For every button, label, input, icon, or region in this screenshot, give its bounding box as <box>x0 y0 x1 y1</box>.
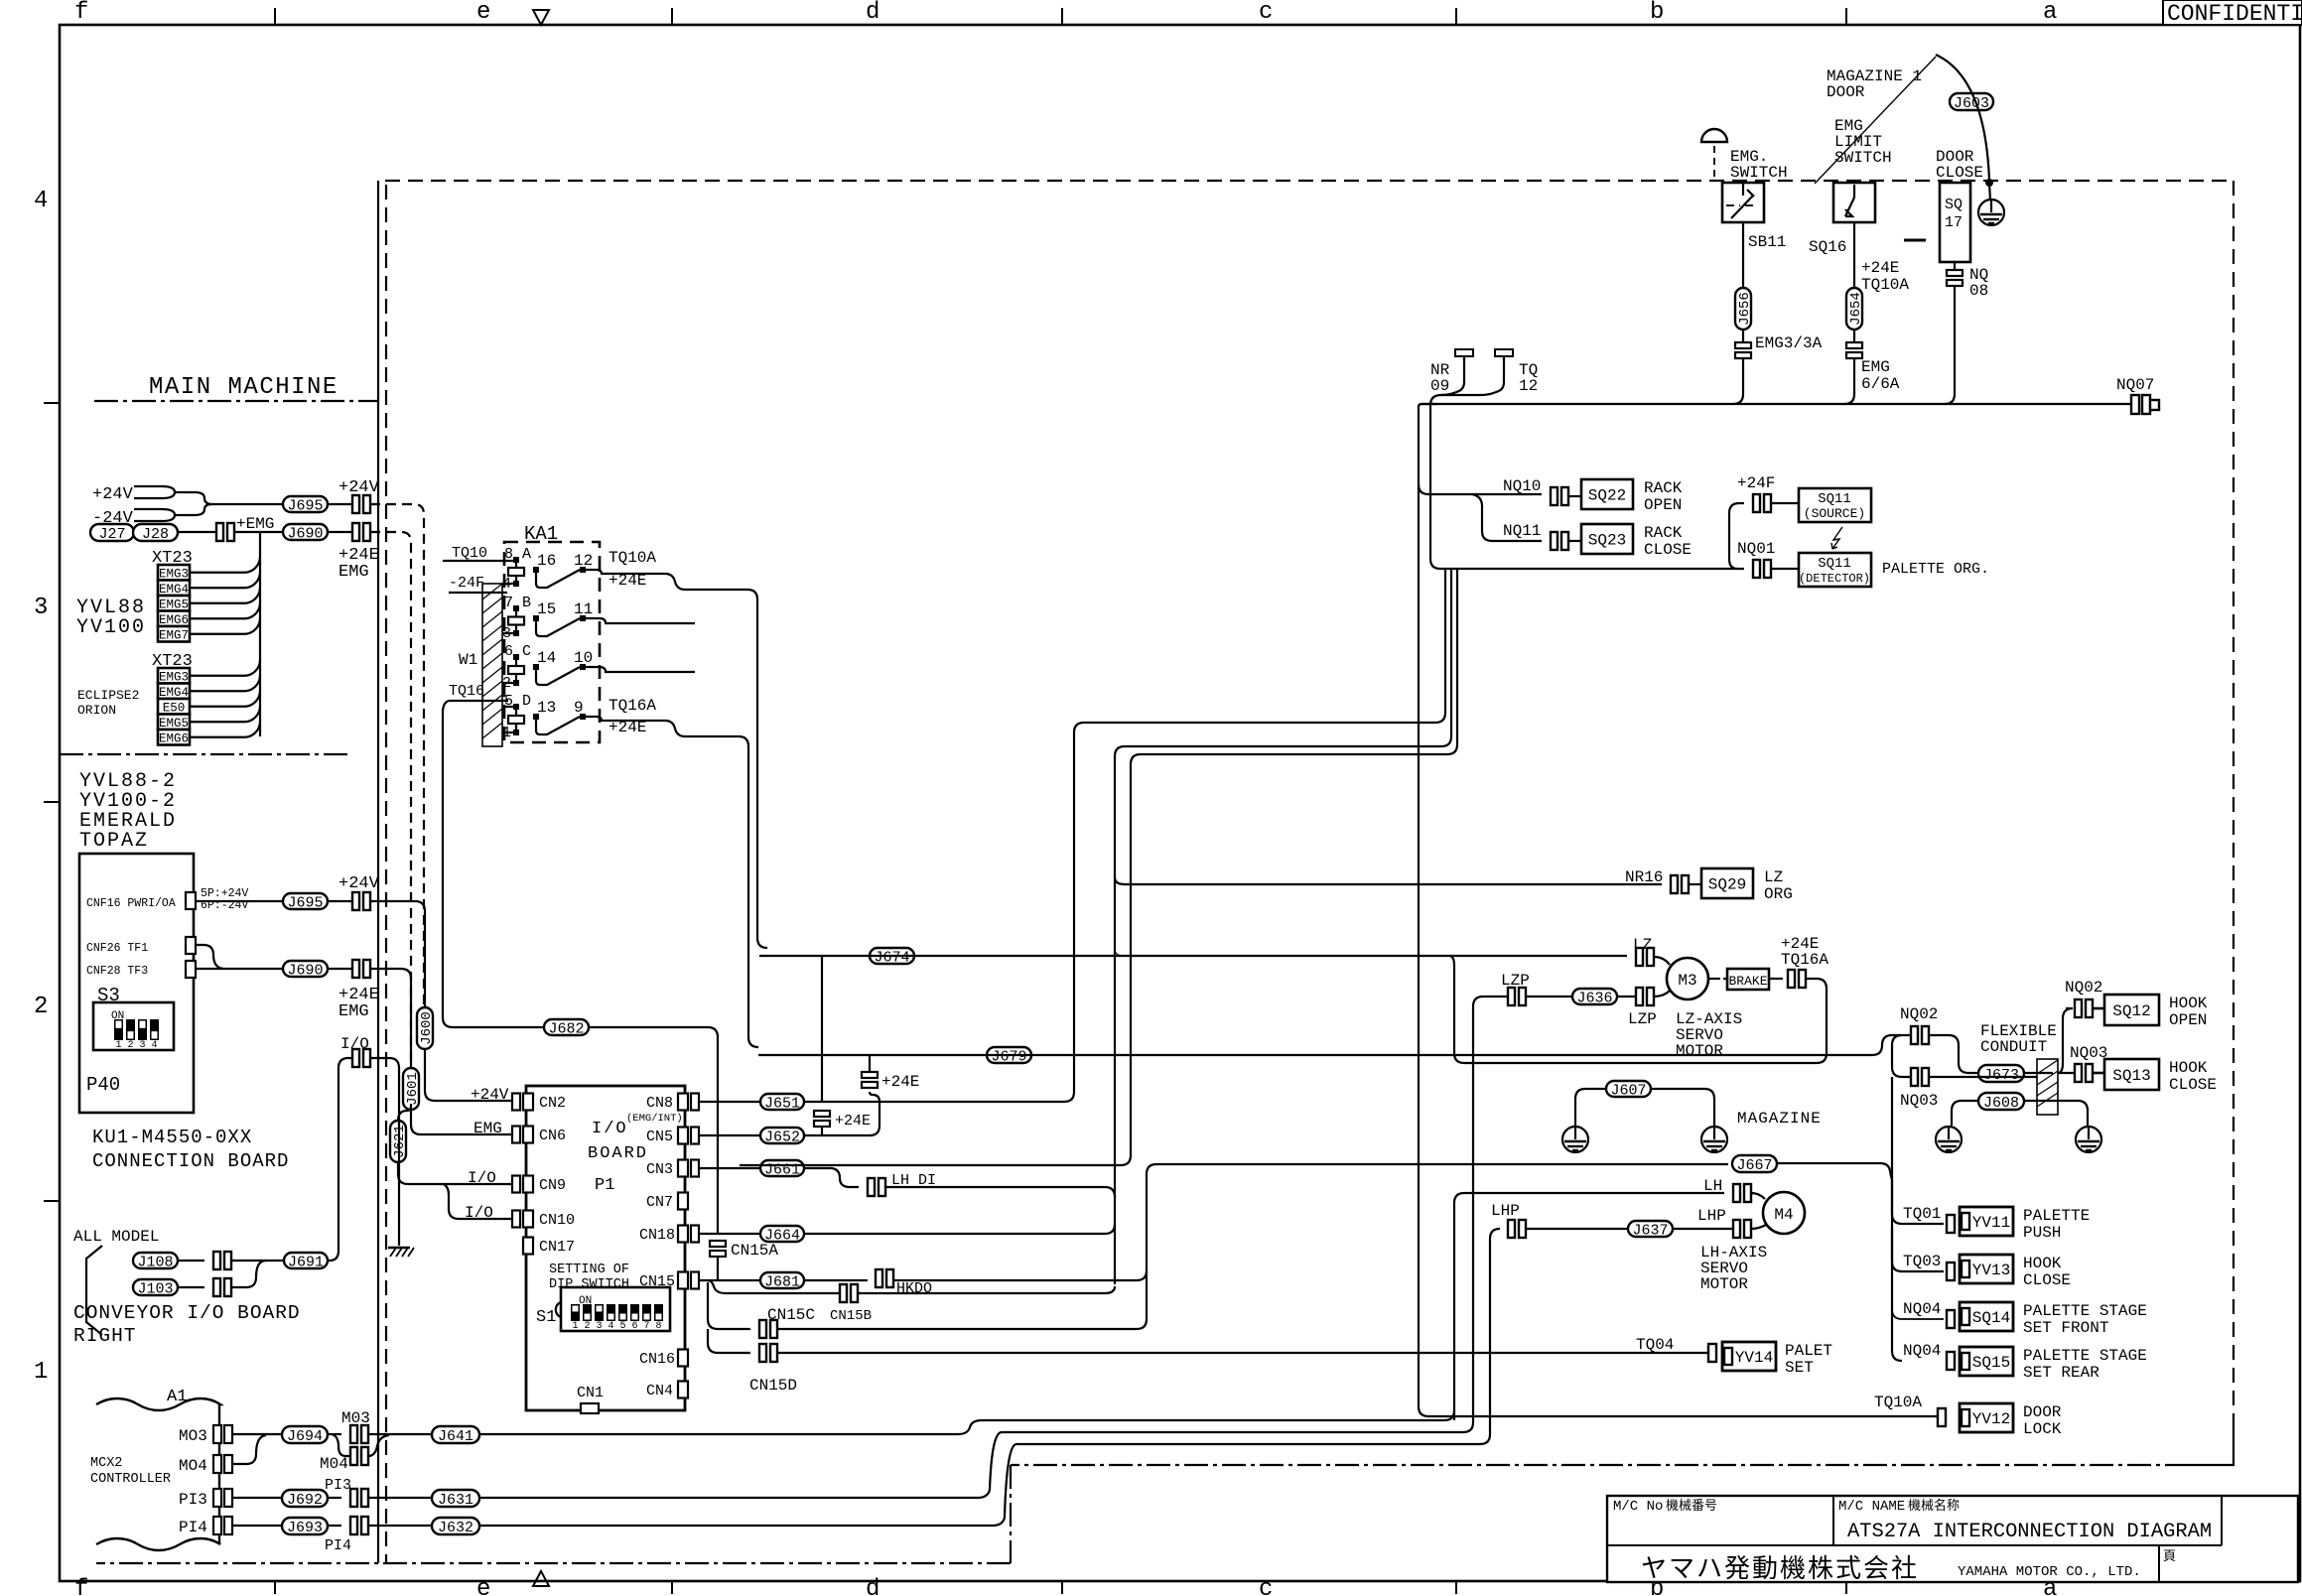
wire CN15B right <box>858 1286 1115 1293</box>
dashed wire +24V down <box>370 504 424 1007</box>
wire CN15A to CN15 junction <box>717 1257 719 1280</box>
svg-text:OPEN: OPEN <box>2169 1011 2207 1029</box>
terminal LZP right <box>1636 988 1643 1005</box>
wire J690-2 to terminal <box>328 968 352 970</box>
wire J641 jog line <box>479 1410 1454 1434</box>
relay KA1 coil 7-3 <box>515 608 517 633</box>
bundle vertical XT23-1 <box>259 532 261 660</box>
wire SQ17 to stack <box>1954 262 1956 270</box>
svg-text:J103: J103 <box>137 1280 173 1297</box>
terminal YV13 <box>1947 1263 1955 1280</box>
connector J631 <box>432 1490 479 1507</box>
wire J667 to bundle <box>1777 1163 1892 1179</box>
svg-text:4: 4 <box>151 1040 157 1051</box>
connector J641 <box>432 1426 479 1443</box>
svg-text:J690: J690 <box>287 525 323 542</box>
terminal LHP left <box>1508 1220 1515 1238</box>
svg-text:J108: J108 <box>137 1254 173 1270</box>
terminal LZP left <box>1508 988 1515 1005</box>
svg-text:C: C <box>522 643 531 660</box>
svg-text:CN4: CN4 <box>646 1383 673 1399</box>
wire +24V to J600 <box>370 901 425 1007</box>
svg-text:CONNECTION BOARD: CONNECTION BOARD <box>92 1150 289 1172</box>
bundle vertical right <box>1892 1077 1902 1361</box>
dashed enclosure top edge <box>385 180 2234 182</box>
dip switch S3 <box>93 1002 174 1050</box>
svg-text:J694: J694 <box>287 1428 323 1445</box>
wire LHP to J637 <box>1526 1228 1628 1230</box>
svg-text:EMG3/3A: EMG3/3A <box>1755 334 1823 352</box>
svg-text:TQ04: TQ04 <box>1636 1336 1674 1354</box>
grid tick top <box>1455 8 1457 25</box>
svg-text:NQ02: NQ02 <box>2065 979 2102 997</box>
svg-text:13: 13 <box>537 699 556 717</box>
relay KA1 dashed box <box>504 542 600 742</box>
revision triangle bottom <box>533 1571 549 1586</box>
svg-text:J637: J637 <box>1632 1222 1668 1239</box>
svg-text:SB11: SB11 <box>1748 233 1786 251</box>
pin PI4 <box>213 1517 221 1534</box>
wire NQ02 bracket <box>1892 1035 1911 1077</box>
wire branch y760 <box>740 569 1457 1165</box>
wire TQ10 to pin8 <box>443 560 513 562</box>
svg-text:I/O: I/O <box>340 1035 369 1053</box>
connector J636 <box>1572 989 1617 1004</box>
wire EMG6 (1) <box>190 602 260 618</box>
wire NR16 to SQ29 <box>1689 883 1701 885</box>
svg-text:EMG: EMG <box>474 1120 502 1137</box>
wire NQ02r to SQ12 <box>2093 1007 2104 1010</box>
svg-text:SQ29: SQ29 <box>1708 876 1746 894</box>
terminal +24F <box>1753 494 1760 512</box>
svg-text:PUSH: PUSH <box>2023 1224 2061 1242</box>
terminal CN2 <box>512 1094 520 1111</box>
svg-text:J691: J691 <box>288 1254 324 1270</box>
svg-text:PALETTE STAGE: PALETTE STAGE <box>2023 1302 2147 1320</box>
pin CN2 <box>523 1094 533 1111</box>
wire EMG4 (2) <box>190 675 260 691</box>
svg-text:MCX2: MCX2 <box>90 1456 122 1471</box>
grid tick top <box>274 8 276 25</box>
svg-text:CN10: CN10 <box>539 1212 575 1229</box>
connector J690 <box>283 524 328 540</box>
switch SB11 contact <box>1731 183 1754 218</box>
svg-text:LHP: LHP <box>1697 1207 1726 1225</box>
svg-text:I/O: I/O <box>465 1204 493 1222</box>
switch SQ11 source box <box>1799 488 1871 522</box>
wire TQ10A from contact A <box>583 570 767 948</box>
svg-text:SWITCH: SWITCH <box>1730 164 1788 182</box>
relay KA1 coil 5-1 <box>515 707 517 732</box>
terminal CN15A <box>710 1241 726 1247</box>
svg-text:J600: J600 <box>419 1011 435 1045</box>
wire brake loop <box>1449 956 1827 1063</box>
terminal block XT23-1 EMG7 <box>158 626 190 642</box>
terminal CN5 <box>691 1128 699 1144</box>
svg-text:CN15C: CN15C <box>767 1306 815 1324</box>
wire EMG5 (1) <box>190 588 260 603</box>
terminal block XT23-1 EMG4 <box>158 581 190 597</box>
svg-text:YV12: YV12 <box>1972 1410 2010 1428</box>
connector J600 <box>417 1007 433 1049</box>
svg-text:NQ04: NQ04 <box>1903 1300 1941 1318</box>
connector J652 <box>760 1128 804 1143</box>
terminal EMG3/3A stack <box>1735 342 1751 348</box>
pin CNF16 <box>186 892 196 909</box>
wire PI3 to J631 <box>368 1497 432 1499</box>
terminal CN9 <box>512 1176 520 1193</box>
svg-text:4: 4 <box>608 1321 613 1332</box>
terminal PI4 <box>350 1517 357 1534</box>
svg-text:J631: J631 <box>438 1492 474 1509</box>
terminal NR16 <box>1671 875 1678 893</box>
connector J667 <box>1732 1155 1777 1172</box>
wire J694 S to M04 <box>332 1434 350 1456</box>
wire contact C stub <box>583 667 695 672</box>
wire TQ03 branch <box>1892 1227 1944 1271</box>
switch SQ16 box <box>1833 183 1875 222</box>
svg-text:J695: J695 <box>287 497 323 514</box>
svg-text:NQ11: NQ11 <box>1503 522 1541 540</box>
wire -24F to pin4 <box>449 584 513 593</box>
svg-text:EMG6: EMG6 <box>159 732 189 746</box>
terminal +24V <box>352 495 359 513</box>
switch SQ12 box <box>2104 995 2159 1025</box>
terminal YV11 <box>1947 1215 1955 1233</box>
svg-text:SWITCH: SWITCH <box>1834 149 1892 167</box>
wire CNF26 jog <box>196 945 223 969</box>
wire TQ01 branch <box>1892 1179 1944 1224</box>
svg-text:J652: J652 <box>764 1129 800 1145</box>
pin CNF26 <box>186 937 196 954</box>
I/O board outline <box>526 1086 685 1410</box>
svg-text:CN15D: CN15D <box>749 1377 797 1395</box>
wire EMG5 (2) <box>190 706 260 722</box>
terminal +24E stack1 <box>862 1072 878 1078</box>
wire J600 to CN2 <box>425 1049 512 1101</box>
svg-text:W1: W1 <box>459 651 477 669</box>
S1 notch <box>556 1302 561 1317</box>
terminal +24E stack2 <box>814 1111 830 1117</box>
pin MO4 <box>213 1455 221 1473</box>
svg-text:LZ: LZ <box>1764 868 1784 886</box>
svg-text:MO3: MO3 <box>179 1427 207 1445</box>
svg-text:CONDUIT: CONDUIT <box>1980 1038 2047 1056</box>
svg-text:TQ16A: TQ16A <box>609 697 656 715</box>
connector J673 <box>1978 1065 2024 1082</box>
svg-text:CN6: CN6 <box>539 1128 566 1144</box>
terminal CN15D <box>759 1344 766 1362</box>
terminal LZ <box>1636 948 1643 966</box>
svg-text:MOTOR: MOTOR <box>1676 1042 1723 1060</box>
svg-text:CN15A: CN15A <box>731 1242 778 1260</box>
grid tick bottom <box>1845 1581 1847 1594</box>
svg-text:J632: J632 <box>438 1520 474 1536</box>
pin PI3 <box>213 1489 221 1507</box>
svg-text:RACK: RACK <box>1644 479 1683 497</box>
terminal M03 <box>350 1425 357 1443</box>
svg-text:SQ15: SQ15 <box>1972 1354 2010 1372</box>
connector J695 <box>283 496 328 512</box>
terminal block XT23-1 EMG6 <box>158 611 190 627</box>
wire J690 to terminal <box>328 531 352 533</box>
svg-text:CN8: CN8 <box>646 1095 673 1112</box>
svg-text:CLOSE: CLOSE <box>2023 1271 2071 1289</box>
svg-text:6: 6 <box>631 1321 637 1332</box>
wire NQ11 to SQ23 <box>1568 540 1581 542</box>
relay KA1 coil 6-2 <box>515 657 517 683</box>
wire J621 feed <box>398 1104 411 1121</box>
fork -24V <box>134 509 175 521</box>
grid tick top <box>1061 8 1063 25</box>
KU1 board outline <box>79 854 194 1113</box>
wire J692 to PI3 terminal <box>328 1497 341 1499</box>
wire +24F branch <box>1729 503 1744 569</box>
svg-text:SQ11: SQ11 <box>1818 491 1851 507</box>
svg-text:+24F: +24F <box>1737 474 1775 492</box>
svg-text:A: A <box>522 546 531 563</box>
svg-text:D: D <box>522 693 531 710</box>
svg-text:J681: J681 <box>764 1273 800 1290</box>
connector J661 <box>760 1160 804 1176</box>
motor M4 <box>1763 1192 1805 1234</box>
wire NQ08 down to bus <box>1945 286 1955 404</box>
svg-text:J679: J679 <box>991 1048 1026 1065</box>
flag terminal TQ12 <box>1495 353 1513 392</box>
wire J661 to LH DI <box>804 1168 859 1187</box>
svg-text:EMG7: EMG7 <box>159 629 189 643</box>
terminal SQ14 <box>1947 1310 1955 1328</box>
connector J607 <box>1606 1081 1651 1097</box>
ground (door) <box>1978 199 2004 225</box>
wire stack2 down <box>821 1127 823 1135</box>
switch SQ17 box <box>1940 183 1970 262</box>
svg-text:J607: J607 <box>1610 1082 1646 1099</box>
svg-text:(EMG/INT): (EMG/INT) <box>626 1113 683 1125</box>
terminal block XT23-2 EMG3 <box>158 668 190 684</box>
switch SQ29 box <box>1701 868 1753 898</box>
valve YV12 box <box>1960 1403 2013 1432</box>
wire CNF28 to J690-2 <box>196 968 283 970</box>
wire NR09/TQ12 joint <box>1430 392 1744 569</box>
terminal NQ03 left <box>1911 1068 1918 1086</box>
wire M03 to J641 <box>368 1433 432 1435</box>
wire CN15 branch3 <box>708 1329 750 1353</box>
svg-text:CNF28 TF3: CNF28 TF3 <box>86 965 148 978</box>
svg-text:J690: J690 <box>287 962 323 979</box>
svg-text:NQ07: NQ07 <box>2116 376 2154 394</box>
wire EMG3 (2) <box>190 660 260 676</box>
wire J636 to LZP right <box>1617 996 1636 997</box>
terminal +EMG <box>216 523 223 541</box>
wire CN15D right (TQ04) <box>777 1352 1708 1354</box>
svg-text:+EMG: +EMG <box>236 515 274 533</box>
wire TQ16A from contact D <box>583 717 758 1047</box>
svg-text:BRAKE: BRAKE <box>1728 974 1767 989</box>
svg-text:2: 2 <box>34 994 48 1020</box>
svg-text:J27: J27 <box>98 526 125 543</box>
wire EMG3 stack to bus <box>1733 358 1743 404</box>
pin CN3 <box>678 1160 688 1177</box>
wire TQ16 to pin5 <box>449 701 513 707</box>
svg-text:SQ11: SQ11 <box>1818 556 1851 572</box>
terminal EMG6/6A stack <box>1846 342 1862 348</box>
terminal PI3 <box>350 1489 357 1507</box>
svg-text:J608: J608 <box>1983 1095 2019 1112</box>
svg-text:J695: J695 <box>287 894 323 911</box>
svg-text:NQ03: NQ03 <box>2070 1044 2107 1062</box>
wire pin3 stub <box>502 632 513 634</box>
wire J108 to J691 <box>231 1260 284 1262</box>
valve YV11 box <box>1960 1207 2013 1236</box>
wire J664 right <box>804 1224 1115 1234</box>
terminal CN10 <box>512 1211 520 1228</box>
wire J673 to NQ02 right <box>2024 1072 2053 1074</box>
fork +24V <box>134 486 175 498</box>
svg-text:EMG: EMG <box>339 1002 369 1021</box>
wire NQ01 branch down-left <box>1074 569 1445 732</box>
wire J607 left to ground <box>1575 1089 1606 1127</box>
svg-text:NQ10: NQ10 <box>1503 477 1541 495</box>
wire MO3 to J694 <box>232 1433 282 1435</box>
svg-text:a: a <box>2043 0 2057 26</box>
wire J28 to EMG terminal <box>178 531 216 533</box>
terminal NQ03 right <box>2075 1064 2082 1082</box>
flag terminal NR09 <box>1455 353 1473 392</box>
dashed wire +24E down <box>370 532 411 1068</box>
svg-text:J667: J667 <box>1736 1157 1772 1174</box>
svg-text:CLOSE: CLOSE <box>1644 541 1692 559</box>
svg-text:2: 2 <box>127 1040 133 1051</box>
terminal block XT23-2 EMG5 <box>158 715 190 731</box>
terminal M04 <box>350 1447 357 1465</box>
svg-text:SQ13: SQ13 <box>2112 1067 2150 1085</box>
wire branch y752 <box>1115 569 1451 1284</box>
wire J632 jog line <box>479 1434 1490 1526</box>
wire bus corner to NQ10 <box>1419 484 1542 494</box>
wire J679 line <box>758 1054 1872 1056</box>
wire fork bracket to J695 <box>175 492 283 515</box>
wire EMG4 (1) <box>190 572 260 588</box>
svg-text:M/C NAME: M/C NAME <box>1838 1499 1905 1515</box>
terminal J103 <box>213 1278 220 1296</box>
terminal J108 <box>213 1252 220 1269</box>
svg-text:ATS27A INTERCONNECTION DIAGRAM: ATS27A INTERCONNECTION DIAGRAM <box>1847 1521 2212 1543</box>
svg-text:3: 3 <box>596 1321 602 1332</box>
terminal block XT23-2 E50 <box>158 699 190 715</box>
svg-text:OPEN: OPEN <box>1644 496 1682 514</box>
svg-text:S1: S1 <box>536 1308 556 1327</box>
title block divider v2 <box>2221 1496 2223 1545</box>
svg-text:ヤマハ発動機株式会社: ヤマハ発動機株式会社 <box>1641 1554 1919 1585</box>
pin CN4 <box>678 1382 688 1398</box>
svg-text:3: 3 <box>34 595 48 621</box>
svg-text:HOOK: HOOK <box>2023 1255 2062 1272</box>
pin MO3 <box>213 1425 221 1443</box>
svg-text:e: e <box>476 0 490 26</box>
connector J664 <box>760 1226 804 1242</box>
svg-text:ORG: ORG <box>1764 885 1793 903</box>
connector J682 <box>544 1019 589 1035</box>
wire pin1 stub <box>502 731 513 733</box>
svg-text:NQ02: NQ02 <box>1900 1005 1938 1023</box>
wire LZP to M3 <box>1654 991 1670 997</box>
wire NQ11 branch <box>1472 494 1542 541</box>
wire CN5 to J652 <box>699 1134 760 1136</box>
wire BRAKE to terminal <box>1769 978 1783 980</box>
wire J682 to CN15A <box>589 1027 718 1233</box>
magazine door arc <box>1936 55 1989 181</box>
MCX2 box wavy bottom <box>96 1538 220 1550</box>
svg-text:+24E: +24E <box>1861 259 1899 277</box>
svg-text:J692: J692 <box>287 1492 323 1509</box>
main bus wire <box>1419 404 1938 1416</box>
svg-text:4: 4 <box>34 188 48 214</box>
wire J108 to terminal <box>178 1260 204 1262</box>
YVL88 machine dash-dot separator <box>60 753 352 755</box>
wire J607 right to ground <box>1651 1089 1714 1127</box>
svg-text:A1: A1 <box>167 1388 187 1406</box>
wire E50 (2) <box>190 691 260 707</box>
wire to J690 <box>234 531 283 533</box>
svg-text:d: d <box>866 0 880 26</box>
svg-text:RACK: RACK <box>1644 524 1683 542</box>
svg-text:7: 7 <box>643 1321 649 1332</box>
svg-text:HKDO: HKDO <box>896 1280 932 1297</box>
svg-text:J601: J601 <box>405 1072 421 1106</box>
svg-text:ECLIPSE2: ECLIPSE2 <box>77 688 139 703</box>
wire J601 to CN6 <box>411 1110 512 1134</box>
terminal NQ07 <box>2131 395 2139 414</box>
svg-text:TQ16: TQ16 <box>449 683 484 700</box>
svg-text:PALET: PALET <box>1785 1342 1832 1360</box>
svg-text:M04: M04 <box>320 1455 348 1473</box>
wire NQ04 branch <box>1892 1274 1944 1319</box>
wire J694 to M03 terminals <box>328 1433 341 1435</box>
svg-text:SQ16: SQ16 <box>1809 238 1846 256</box>
svg-text:CN15B: CN15B <box>830 1308 872 1324</box>
svg-text:PALETTE: PALETTE <box>2023 1207 2090 1225</box>
svg-text:PI4: PI4 <box>179 1519 207 1536</box>
pin CN16 <box>678 1350 688 1367</box>
switch SQ15 box <box>1960 1347 2013 1376</box>
svg-text:J28: J28 <box>142 526 169 543</box>
svg-text:b: b <box>1650 0 1664 26</box>
pin CN18 <box>678 1226 688 1243</box>
svg-text:NR16: NR16 <box>1625 868 1663 886</box>
svg-text:J603: J603 <box>1954 95 1989 112</box>
wire LZP to J636 <box>1526 996 1572 997</box>
dashed enclosure right-bottom corner <box>2189 1426 2234 1465</box>
terminal NQ02 right <box>2075 999 2082 1017</box>
pin CN9 <box>523 1176 533 1193</box>
svg-text:機械名称: 機械名称 <box>1908 1498 1960 1514</box>
svg-text:SQ14: SQ14 <box>1972 1309 2010 1327</box>
svg-text:17: 17 <box>1945 214 1963 231</box>
svg-text:CLOSE: CLOSE <box>1936 164 1983 182</box>
svg-text:6: 6 <box>504 643 513 660</box>
wire CN15C right <box>777 1164 1156 1329</box>
connector J681 <box>760 1272 804 1288</box>
wire HKDO right <box>894 1270 1147 1280</box>
svg-text:SQ12: SQ12 <box>2112 1002 2150 1020</box>
svg-text:MOTOR: MOTOR <box>1700 1275 1748 1293</box>
wire I/O to ground <box>370 1058 399 1246</box>
node TQ12 join <box>1441 392 1496 395</box>
title block divider v3 <box>2158 1545 2160 1582</box>
terminal SQ15 <box>1947 1352 1955 1370</box>
terminal block XT23-1 EMG3 <box>158 565 190 581</box>
